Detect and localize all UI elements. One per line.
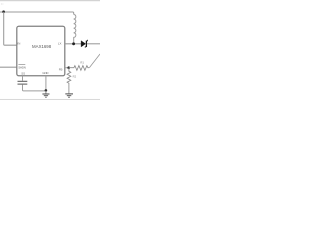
wire R1 to VOUT diagonal [89,54,100,68]
wire GND pin down [45,76,47,91]
junction LX node [72,42,75,45]
wire C1 bottom to ground rail [23,84,46,91]
ground for GND pin [42,91,49,97]
svg-text:GND: GND [42,71,48,75]
wire VOUT [87,43,100,45]
wire FB to node [65,67,69,69]
svg-text:SHDN: SHDN [18,65,26,69]
wire VIN to IN pin [4,12,17,45]
svg-text:LX: LX [58,42,62,46]
svg-text:SS: SS [21,71,25,75]
resistor R2 [67,68,71,94]
pin label SHDN overline [18,64,25,66]
svg-text:IN: IN [17,42,20,46]
ground for R2 [65,94,73,97]
svg-text:R2: R2 [73,74,77,78]
capacitor C1 plates [18,80,28,82]
wire LX to diode [65,43,81,45]
junction FB node [67,66,70,69]
junction input node [2,10,5,13]
svg-text:IN: IN [1,2,4,6]
resistor R1 [69,66,89,71]
svg-text:FB: FB [59,68,63,72]
diode D1 Schottky [81,40,88,48]
junction ground node [45,89,48,92]
wire VIN top rail [0,12,74,14]
svg-text:R1: R1 [80,61,84,65]
capacitor C1 soft-start: lead from SS pin [22,76,24,81]
IC U1 MAX1698 box [17,26,65,76]
svg-text:MAX1698: MAX1698 [32,44,52,49]
inductor L1 [74,14,76,43]
wire SHDN input [0,66,17,68]
